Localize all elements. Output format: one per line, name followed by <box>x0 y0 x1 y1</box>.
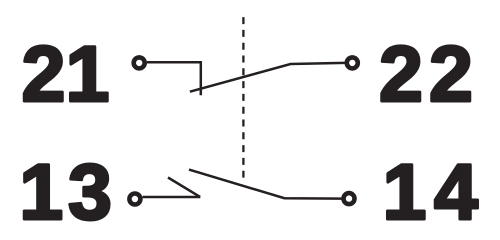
svg-text:3: 3 <box>68 147 112 236</box>
svg-text:1: 1 <box>383 147 427 236</box>
svg-text:1: 1 <box>19 147 63 236</box>
svg-text:2: 2 <box>379 29 423 118</box>
terminal 22 circle <box>347 57 358 68</box>
chevron barb on fixed contact 13 <box>168 178 200 197</box>
terminal 21 circle <box>134 57 145 68</box>
svg-text:2: 2 <box>429 29 473 118</box>
terminal 13 circle <box>129 194 140 205</box>
svg-text:4: 4 <box>434 147 478 236</box>
mechanical linkage dashed line <box>242 17 244 178</box>
label 22 <box>379 29 473 118</box>
terminal 14 circle <box>344 193 355 204</box>
wire 13 fixed contact <box>143 196 201 199</box>
svg-text:2: 2 <box>22 29 66 118</box>
wire 21 fixed contact (L-shape) <box>147 62 201 95</box>
svg-text:1: 1 <box>66 29 110 118</box>
label 13 <box>19 147 112 236</box>
moving contact lever (bottom, NO) <box>189 170 342 199</box>
moving contact lever (top, NC) <box>190 63 345 92</box>
label 21 <box>22 29 110 118</box>
label 14 <box>383 147 479 236</box>
